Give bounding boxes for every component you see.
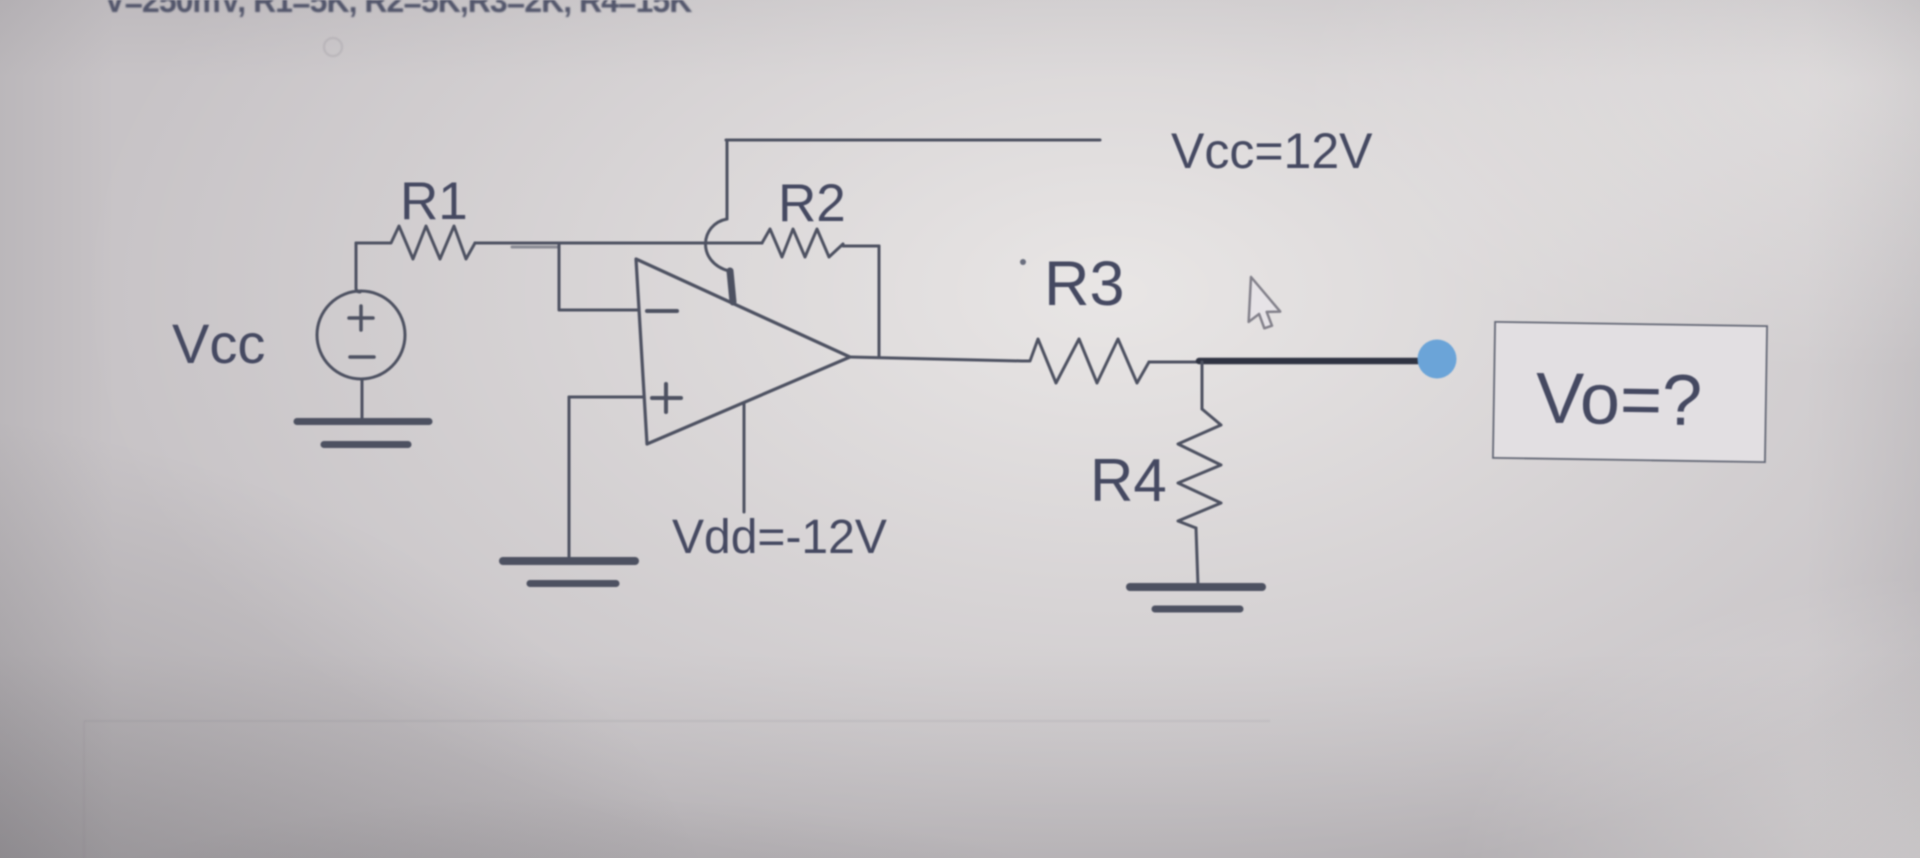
node Vo (blue terminal dot) <box>1418 340 1457 379</box>
wire supply drop to op-amp <box>726 140 729 219</box>
ground (below + input) <box>503 557 635 565</box>
svg-text:R4: R4 <box>1090 447 1167 514</box>
wire R2 down to output <box>878 246 881 357</box>
wire R3 to node <box>1149 361 1199 364</box>
wire node to output terminal (thick) <box>1199 358 1420 365</box>
wire source top lead <box>356 243 360 292</box>
wire output to R3 <box>850 357 1022 361</box>
svg-text:R2: R2 <box>778 174 846 233</box>
faint ring artifact <box>324 38 342 56</box>
svg-text:V=250mV, R1=5K, R2=5K,R3=2K, R: V=250mV, R1=5K, R2=5K,R3=2K, R4=15K <box>104 0 692 19</box>
wire R2 right lead <box>843 245 879 248</box>
resistor R4 <box>1178 409 1221 528</box>
svg-text:R1: R1 <box>400 172 468 231</box>
wire overlap artifact <box>512 246 559 249</box>
box Vo=? <box>1493 322 1767 462</box>
resistor R1 <box>356 226 475 259</box>
svg-text:Vo=?: Vo=? <box>1535 359 1702 442</box>
ground (below R4) <box>1130 583 1262 591</box>
pin V- supply wire (to Vdd) <box>743 403 746 512</box>
pin V+ supply (thick mark on op-amp top edge) <box>730 271 733 302</box>
faint reflection line <box>84 720 1270 722</box>
op-amp U1 <box>636 259 850 444</box>
speck <box>1020 259 1026 265</box>
wire R4 bottom lead <box>1196 528 1198 586</box>
ground (below source) <box>297 418 429 425</box>
svg-text:Vcc: Vcc <box>172 312 265 375</box>
wire junction down to inverting input <box>559 243 639 310</box>
wire R1 to R2 (inverting node rail) <box>475 242 762 245</box>
svg-text:Vdd=-12V: Vdd=-12V <box>672 511 887 564</box>
wire non-inverting input <box>569 396 644 399</box>
wire node down to R4 <box>1201 362 1204 409</box>
wire + input down to ground <box>568 397 571 557</box>
svg-text:Vcc=12V: Vcc=12V <box>1171 123 1373 179</box>
wire Vcc supply rail (top) <box>726 139 1100 142</box>
wire source bottom lead <box>361 379 364 418</box>
resistor R3 <box>1022 339 1149 383</box>
wire hop over inverting rail <box>705 219 729 271</box>
pin + (non-inverting input mark) <box>652 384 681 412</box>
resistor R2 <box>762 229 843 257</box>
voltage source V1 (Vcc) <box>317 291 405 379</box>
pin - (inverting input mark) <box>647 309 677 313</box>
svg-text:R3: R3 <box>1044 249 1125 319</box>
mouse cursor <box>1248 277 1282 329</box>
